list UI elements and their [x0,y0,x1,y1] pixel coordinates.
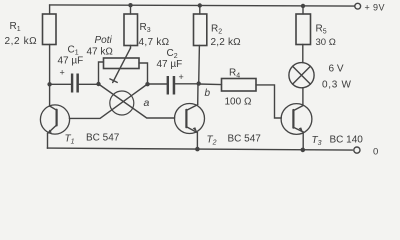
svg-text:Poti: Poti [95,35,113,46]
svg-text:47 µF: 47 µF [157,59,183,70]
resistor R2 [194,14,207,46]
wire C2 left lead [148,83,167,85]
cross-coupling wire a-right to T1 base [69,84,147,118]
svg-text:30 Ω: 30 Ω [316,37,336,48]
capacitor C1 [71,74,79,93]
node R2 top [198,3,202,7]
terminal 0V [354,147,360,153]
svg-text:+: + [60,68,65,78]
wire R3 top lead [130,5,132,14]
potentiometer Poti 47k body [104,58,140,69]
wire poti left terminal [99,62,104,84]
wire node b to R4 [199,83,222,86]
crossing marker circle node a [110,91,134,115]
svg-text:2,2 kΩ: 2,2 kΩ [211,37,242,48]
wire R2 top lead [199,6,201,15]
transistor T2 BC547 [175,84,205,149]
node R3 top [128,3,132,7]
node C1 / T1 collector [47,82,51,86]
node b [197,81,201,85]
wire poti right terminal [139,63,148,84]
wire top supply rail [50,5,355,6]
wiper arrow dash [110,79,117,83]
svg-text:0: 0 [373,147,378,158]
lamp 6V 0.3W [289,63,314,88]
wire R1 top lead [49,5,51,14]
wire poti wiper to R3 [130,46,132,49]
svg-text:2,2 kΩ: 2,2 kΩ [5,36,38,47]
wire C1 right lead [79,83,99,85]
resistor R5 [296,14,311,45]
resistor R1 [43,14,57,45]
node a left [96,82,100,86]
wire R5 to lamp [302,45,304,63]
wire C1 left lead [50,83,71,85]
transistor T3 BC140 [281,104,312,150]
svg-text:47 kΩ: 47 kΩ [87,47,114,58]
svg-text:b: b [205,88,211,99]
svg-text:+ 9V: + 9V [365,3,385,13]
wire R5 top lead [302,6,304,14]
svg-text:BC 547: BC 547 [228,134,262,145]
svg-text:0,3 W: 0,3 W [322,80,352,91]
transistor T1 BC547 [40,105,69,148]
svg-text:+: + [179,72,184,82]
terminal +9V [355,3,361,9]
svg-text:a: a [144,97,150,109]
cross-coupling wire a-left to T2 base [99,84,175,118]
wire bottom ground rail [47,148,352,150]
node T3 emitter ground [301,148,306,153]
resistor R3 [124,14,138,46]
node R5 top [301,4,305,8]
wire R2 to node b [198,46,201,84]
wire R4 to T3 base [256,85,281,118]
svg-text:47 µF: 47 µF [58,56,84,67]
node a right [145,82,149,86]
svg-text:6 V: 6 V [329,64,344,75]
resistor R4 [222,79,257,92]
wire lamp to T3 collector [302,88,304,106]
svg-text:BC 140: BC 140 [330,135,364,146]
svg-text:100 Ω: 100 Ω [225,97,252,108]
svg-text:4,7 kΩ: 4,7 kΩ [139,37,170,48]
node T2 emitter ground [195,147,200,152]
wire C2 right lead [175,83,199,85]
wire T1 collector lead [49,45,51,107]
capacitor C2 [167,76,176,95]
svg-text:BC 547: BC 547 [86,133,120,144]
